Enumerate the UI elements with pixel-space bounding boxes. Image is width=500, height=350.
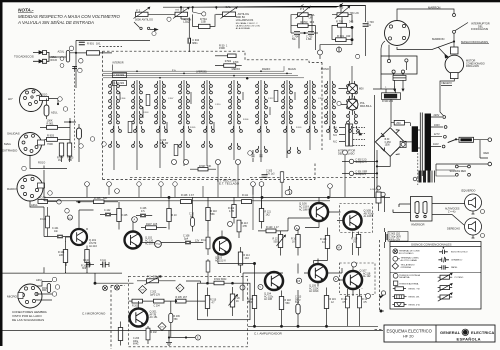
svg-text:R 901: R 901 — [47, 122, 54, 126]
resistor R120 147 — [258, 226, 288, 233]
micro out wires — [94, 273, 128, 290]
svg-text:C 202: C 202 — [150, 292, 157, 294]
svg-text:R.111: R.111 — [242, 194, 249, 197]
keyboard bus wires — [103, 66, 304, 79]
wires mid amp right — [288, 212, 353, 255]
svg-text:S.901: S.901 — [370, 189, 376, 191]
lamp MDI — [339, 84, 364, 98]
svg-text:MONO: MONO — [321, 67, 329, 71]
wires between amp stages bottom — [218, 255, 362, 302]
resistor R112 vertical — [228, 197, 236, 223]
svg-text:SAL: SAL — [226, 5, 232, 9]
svg-text:C.102: C.102 — [104, 209, 111, 212]
dashed wire to title box — [375, 328, 385, 330]
long rail above micro — [3, 272, 123, 274]
svg-text:EXTRAIDO: EXTRAIDO — [2, 149, 18, 153]
tube socket SALIDAS — [2, 132, 45, 156]
resistor R507 bottom — [190, 165, 216, 171]
capacitor C203 labels — [133, 338, 140, 346]
wires Q101 — [66, 201, 94, 242]
svg-text:C.I MICROFONO: C.I MICROFONO — [82, 312, 106, 316]
electrolytic C205 — [169, 302, 181, 338]
ground mic — [166, 330, 172, 346]
wire marron top — [397, 5, 456, 20]
svg-text:AZUL: AZUL — [36, 278, 43, 282]
legend ceramico — [438, 257, 462, 263]
svg-text:N.C: N.C — [333, 134, 337, 137]
svg-text:R.105: R.105 — [121, 214, 128, 217]
key position labels — [172, 67, 329, 74]
potentiometer P2 500K ANTILOG — [134, 7, 154, 21]
svg-text:ROJO: ROJO — [40, 93, 47, 97]
mains plug — [381, 74, 406, 91]
loop wires P3 — [291, 15, 316, 33]
diamond test point 3 — [158, 323, 166, 331]
svg-text:500: 500 — [274, 240, 279, 243]
svg-text:POTENC.: POTENC. — [455, 277, 465, 279]
svg-text:C 111: C 111 — [100, 260, 107, 262]
svg-text:AZUL: AZUL — [31, 203, 38, 207]
resistor R105 vertical — [117, 202, 128, 230]
resistor R110 56K vertical — [206, 197, 218, 230]
wire from plate to selector — [381, 41, 406, 75]
svg-text:MICRO: MICRO — [7, 295, 18, 299]
wire input to amplifier — [49, 40, 76, 88]
resistor R210 vertical — [205, 288, 217, 317]
legend electrolitico — [439, 247, 468, 254]
svg-text:C.I. AMPLIFICADOR: C.I. AMPLIFICADOR — [254, 331, 283, 335]
potentiometer SAL — [221, 5, 261, 30]
svg-text:DE LAS SOLDADURAS: DE LAS SOLDADURAS — [12, 318, 44, 322]
capacitor C101 — [44, 207, 71, 238]
svg-text:750: 750 — [68, 159, 73, 162]
capacitor C201 label — [150, 292, 160, 297]
resistor R202 vertical — [146, 326, 157, 344]
svg-text:C.307: C.307 — [168, 98, 174, 100]
resistor at HI7 plate (ROJO) — [40, 93, 59, 105]
svg-text:A: A — [134, 218, 136, 222]
resistor R900 280 boxed — [373, 87, 401, 103]
svg-text:AC 188: AC 188 — [264, 298, 273, 301]
svg-text:ROJO: ROJO — [38, 161, 45, 165]
svg-text:10n: 10n — [54, 230, 59, 233]
svg-text:MDI: MDI — [359, 88, 364, 91]
svg-text:12 V: 12 V — [362, 162, 367, 164]
voltage selector arm — [448, 138, 457, 142]
svg-text:C 203: C 203 — [133, 338, 140, 340]
node E below keyboard — [287, 186, 292, 195]
svg-text:EN CANAL 2 SECC. 2: EN CANAL 2 SECC. 2 — [236, 22, 259, 25]
svg-text:C.306: C.306 — [120, 98, 126, 100]
svg-text:MEDIO: MEDIO — [232, 67, 241, 71]
mic preamp dashed box — [129, 276, 248, 347]
svg-text:C 50a OER: C 50a OER — [389, 237, 401, 239]
capacitor C113 — [295, 290, 302, 326]
svg-text:MASA FONOCHASIS: MASA FONOCHASIS — [461, 40, 488, 44]
svg-text:MEDIDAS RESPECTO A MASA CON VO: MEDIDAS RESPECTO A MASA CON VOLTIMETRO — [18, 14, 121, 19]
svg-text:RESIS. 1W.: RESIS. 1W. — [409, 297, 420, 299]
svg-text:FONOCHASIS: FONOCHASIS — [471, 27, 488, 31]
svg-text:A VALVULA SIN SEÑAL DE ENTRADA: A VALVULA SIN SEÑAL DE ENTRADA — [17, 20, 94, 25]
shield dashed line from input — [72, 67, 77, 150]
svg-text:343: 343 — [349, 19, 354, 23]
svg-text:R.506: R.506 — [243, 119, 249, 121]
resistor R109 vertical — [167, 197, 177, 229]
capacitor C703 — [363, 6, 375, 57]
resistor R901 100K — [40, 119, 70, 130]
svg-text:B.30: B.30 — [385, 139, 390, 141]
micro shielded capsule — [47, 284, 50, 293]
svg-text:56K: 56K — [211, 213, 216, 216]
svg-text:12V: 12V — [362, 174, 367, 176]
capacitor C901 — [342, 171, 377, 176]
svg-text:MARRON: MARRON — [432, 37, 444, 41]
svg-text:6V4: 6V4 — [295, 301, 300, 304]
electrolytic cap right — [77, 124, 82, 162]
resistor R101 22K — [58, 242, 68, 274]
svg-text:7½V: 7½V — [156, 242, 161, 246]
svg-text:F.A.: F.A. — [172, 69, 177, 73]
svg-text:12V: 12V — [195, 240, 200, 243]
transistor Q101 — [71, 229, 97, 248]
svg-text:NO UTILIZADO: NO UTILIZADO — [399, 252, 414, 255]
legend tension alterna — [393, 281, 419, 285]
svg-text:AC 188 K: AC 188 K — [299, 208, 310, 211]
keyboard contact grid — [109, 81, 360, 153]
resistor R703 — [298, 20, 315, 28]
svg-text:R.503: R.503 — [143, 112, 149, 114]
wire ROJO bottom — [22, 156, 67, 171]
dashed separator above rail — [130, 177, 378, 179]
svg-text:6V4Z: 6V4Z — [133, 344, 139, 346]
voltage selector box — [381, 56, 417, 74]
switch on P2 — [134, 22, 158, 36]
node rail mid — [64, 118, 76, 160]
svg-text:E.T. REC.1A B: E.T. REC.1A B — [217, 179, 237, 183]
wires P5 block — [320, 4, 366, 49]
altavoces label — [445, 208, 460, 214]
node A circle — [69, 46, 73, 50]
svg-text:220V: 220V — [434, 114, 440, 117]
keyboard bottom nodes — [171, 151, 252, 165]
svg-text:1K: 1K — [292, 240, 295, 243]
tone block P5 — [335, 3, 359, 18]
svg-text:OPRIMIDA: OPRIMIDA — [401, 266, 412, 269]
pot P203 1K vertical — [229, 287, 241, 316]
legend pot variant 2 — [438, 283, 453, 291]
mains fuse — [456, 137, 492, 142]
extra vertical resistor R104 — [40, 207, 49, 237]
svg-text:INVERSOR: INVERSOR — [411, 223, 425, 227]
svg-text:150K: 150K — [219, 46, 225, 50]
svg-text:1 47: 1 47 — [274, 226, 279, 229]
svg-text:160V: 160V — [434, 124, 440, 127]
dashed box Q107 — [340, 263, 376, 295]
wires down from tone to keyboard — [299, 26, 360, 59]
node 52 — [336, 196, 338, 198]
transistor Q107 — [338, 265, 371, 290]
transformer taps — [431, 114, 447, 148]
svg-text:470K: 470K — [233, 61, 239, 64]
node circles amp mid — [155, 221, 300, 247]
svg-text:MAGN: MAGN — [288, 67, 296, 71]
capacitors C904 C905 below keyboard — [252, 150, 263, 162]
keyboard inner resistors — [128, 90, 278, 155]
resistor R103 1K vertical — [291, 229, 300, 256]
dashed box Q108 — [340, 204, 373, 233]
GE logo and name — [440, 329, 494, 342]
svg-text:C.310: C.310 — [215, 104, 221, 106]
svg-text:1K1: 1K1 — [96, 42, 101, 46]
svg-text:SALIDAS RED: SALIDAS RED — [450, 170, 467, 173]
svg-text:LOG-AMPLCOS: LOG-AMPLCOS — [236, 19, 254, 22]
main supply rails — [44, 170, 390, 201]
svg-text:C.313: C.313 — [318, 98, 324, 100]
svg-text:LA SECCION LOG CON.: LA SECCION LOG CON. — [236, 25, 261, 28]
svg-text:HI7: HI7 — [8, 97, 13, 101]
resistor R702 — [336, 19, 354, 27]
capacitor C903 labels — [385, 228, 409, 248]
svg-text:5μ4: 5μ4 — [184, 237, 189, 240]
svg-text:CERAMICO: CERAMICO — [451, 259, 463, 262]
resistor R903 — [45, 134, 71, 147]
svg-text:A LA NORMAL: A LA NORMAL — [236, 27, 251, 30]
svg-text:DERECHO: DERECHO — [447, 227, 460, 231]
svg-text:R.703: R.703 — [301, 20, 308, 24]
svg-text:1500: 1500 — [385, 145, 391, 147]
transistor Q105 — [304, 259, 327, 294]
lamp MDA — [337, 99, 372, 115]
svg-text:R 601 500Ω: R 601 500Ω — [214, 279, 227, 281]
svg-text:Z = 4Ω: Z = 4Ω — [448, 211, 456, 214]
svg-text:R 203: R 203 — [132, 306, 139, 308]
keyboard vertical stems — [114, 66, 352, 170]
svg-text:15B: 15B — [201, 20, 206, 24]
svg-text:INTERIOR: INTERIOR — [113, 63, 124, 65]
svg-text:1K5: 1K5 — [153, 223, 158, 226]
meter box in bridge — [400, 141, 406, 147]
svg-text:1M: 1M — [58, 159, 61, 162]
svg-text:AC.116: AC.116 — [89, 245, 97, 248]
capacitor C108 — [142, 235, 204, 244]
legend resis 1W — [392, 295, 419, 299]
micro wiring — [36, 278, 52, 300]
node A circle — [132, 217, 138, 223]
svg-text:0μF5 12V: 0μF5 12V — [150, 294, 160, 296]
legend potenciometro — [438, 273, 465, 281]
bridge rectifier B30 C450 — [375, 128, 404, 157]
svg-text:AC 181K: AC 181K — [309, 290, 319, 293]
svg-text:R.502: R.502 — [225, 60, 232, 63]
extra node circles on amp top wires — [85, 150, 348, 197]
svg-text:R 900 280: R 900 280 — [382, 100, 394, 103]
tube socket MICRO — [7, 284, 42, 308]
svg-text:1K2: 1K2 — [266, 214, 271, 217]
node B — [167, 17, 171, 21]
svg-text:AL 102: AL 102 — [363, 275, 371, 278]
resistor R70A — [193, 14, 216, 28]
transistor Q201 — [129, 301, 158, 327]
mic aux box — [198, 279, 251, 320]
pot P202 50K — [137, 276, 176, 285]
svg-text:P·2: P·2 — [147, 276, 151, 279]
tocadiscos input connectors — [14, 51, 57, 64]
svg-text:ROJO: ROJO — [51, 59, 58, 62]
tube socket HI7 — [8, 89, 43, 112]
node FB — [296, 278, 301, 283]
resistor R204 — [143, 299, 177, 307]
masa fonochasis node — [397, 37, 489, 50]
node M — [336, 245, 341, 250]
svg-text:47B: 47B — [243, 225, 248, 228]
potentiometer P1 — [173, 7, 191, 24]
resistor R501 — [215, 54, 236, 58]
connector note text — [12, 310, 47, 322]
svg-text:R.120: R.120 — [266, 226, 273, 229]
transformer bottom windings — [413, 153, 434, 185]
svg-text:NEGATIVA: NEGATIVA — [399, 276, 410, 279]
svg-text:C.305: C.305 — [266, 171, 273, 173]
svg-text:ELECTRICA: ELECTRICA — [471, 330, 494, 335]
wire top rail — [76, 39, 150, 41]
svg-text:LOG: LOG — [184, 20, 189, 24]
svg-text:SIGNOS CONVENCIONALES: SIGNOS CONVENCIONALES — [411, 243, 452, 247]
resistor R114 vertical — [238, 247, 250, 273]
node at Q106 input — [285, 190, 290, 195]
svg-text:250: 250 — [396, 121, 401, 125]
resistor R123 vertical — [320, 228, 330, 261]
svg-text:R.702: R.702 — [336, 19, 343, 23]
micro terminal nodes — [52, 277, 59, 296]
capacitor C304 — [188, 38, 200, 45]
resistor R121 1K2 — [259, 197, 271, 228]
svg-text:AZUL: AZUL — [51, 111, 58, 115]
transistor Q106 — [299, 198, 328, 222]
speaker izquierdo — [461, 189, 485, 215]
red output terminal — [436, 140, 492, 170]
svg-text:R 209: R 209 — [174, 316, 181, 318]
NOTA text block — [17, 8, 121, 26]
resistor R124 vertical — [351, 232, 361, 256]
tone block P3 — [296, 5, 315, 20]
extra resistor R115 vertical right of Q103 — [201, 230, 210, 255]
svg-text:SALIDAS: SALIDAS — [7, 132, 20, 136]
capacitor C900 — [76, 40, 85, 44]
resistor R102 — [81, 246, 89, 274]
node T — [317, 50, 322, 55]
capacitor C902 — [342, 159, 377, 164]
transistor Q104 — [258, 266, 283, 302]
resistor R117 vertical top — [280, 171, 284, 197]
node top Q107 — [351, 262, 356, 267]
resistor R50x labels above keyboard — [219, 43, 228, 50]
svg-text:S.A: S.A — [333, 127, 337, 130]
legend papel — [438, 265, 458, 269]
capacitor C102 — [100, 209, 117, 216]
svg-text:R107: R107 — [146, 223, 152, 226]
node Y — [258, 284, 263, 289]
resistor at RADIO output — [38, 196, 58, 204]
svg-text:TOCADISCOS: TOCADISCOS — [14, 55, 34, 59]
svg-text:RESIS. 4 W.: RESIS. 4 W. — [409, 304, 421, 306]
svg-text:C 204: C 204 — [154, 306, 161, 308]
extra caps bottom left rail — [83, 260, 109, 268]
svg-text:AZUL: AZUL — [58, 49, 65, 53]
left power rail — [375, 95, 392, 198]
wires mic box top — [129, 281, 246, 301]
capacitor C103 — [189, 197, 195, 231]
C300 boxed caps left — [113, 63, 127, 86]
svg-text:R.509: R.509 — [296, 127, 302, 129]
node D — [333, 276, 338, 281]
bottom rule line — [3, 330, 384, 332]
svg-text:22K: 22K — [59, 254, 64, 257]
keyboard misc labels — [120, 98, 324, 129]
svg-text:MDA 50LA: MDA 50LA — [360, 105, 372, 108]
svg-text:HF 20: HF 20 — [403, 334, 414, 339]
svg-text:R 205: R 205 — [176, 297, 183, 299]
svg-text:(VERDE): (VERDE) — [196, 70, 207, 74]
svg-text:680n: 680n — [192, 42, 198, 45]
svg-text:560: 560 — [286, 302, 291, 305]
svg-text:500K ANTILOG: 500K ANTILOG — [135, 17, 153, 21]
node circles right column — [79, 137, 106, 148]
wires inversor to speakers — [432, 204, 465, 226]
svg-text:R.10: R.10 — [172, 214, 178, 217]
resistor R502 470K — [215, 60, 242, 67]
svg-text:R 106: R 106 — [94, 197, 101, 200]
svg-text:mt: mt — [176, 8, 179, 12]
interruptor fonochasis switch — [453, 22, 490, 42]
svg-text:R.505: R.505 — [190, 127, 196, 129]
keyboard dashed box — [103, 51, 323, 179]
svg-text:343: 343 — [346, 34, 351, 38]
svg-text:R 104: R 104 — [40, 219, 47, 221]
svg-text:C 903 12Ω: C 903 12Ω — [389, 234, 400, 236]
wire P2 to P1 — [148, 13, 175, 15]
phono connector plate — [385, 21, 410, 46]
svg-text:C.450: C.450 — [385, 142, 392, 144]
svg-text:10K 2W: 10K 2W — [160, 143, 169, 145]
legend resis 1/2W — [393, 287, 420, 291]
resistor R901 1K1 — [76, 42, 112, 56]
svg-text:F.B: F.B — [297, 281, 301, 283]
svg-text:700K: 700K — [47, 142, 53, 146]
shielded cable capsule — [66, 50, 69, 62]
svg-text:R 901: R 901 — [87, 42, 94, 46]
interruptor del teclado inset — [333, 124, 365, 156]
svg-text:78C: 78C — [174, 319, 179, 321]
svg-text:PAPEL: PAPEL — [451, 266, 458, 269]
svg-text:C.312: C.312 — [268, 98, 274, 100]
svg-text:C 110: C 110 — [83, 260, 90, 262]
svg-text:110V: 110V — [433, 143, 439, 146]
legend pot variant 3 — [438, 293, 453, 301]
svg-text:PARA 220V: PARA 220V — [466, 65, 479, 68]
svg-text:62K: 62K — [103, 197, 108, 200]
resistor R107 — [141, 223, 167, 230]
svg-text:RED: RED — [484, 151, 490, 155]
resistor R111 on rail — [242, 194, 252, 204]
resistor R203 — [129, 299, 143, 307]
resistor R118 560 — [279, 291, 291, 327]
svg-text:AC.151 IV: AC.151 IV — [215, 260, 226, 263]
transistor Q108 — [329, 172, 375, 230]
resistor R11B vertical above mic box — [206, 259, 210, 284]
svg-text:1K: 1K — [236, 301, 239, 303]
circled + node — [193, 12, 206, 16]
svg-text:4000μ 25V: 4000μ 25V — [389, 240, 401, 242]
